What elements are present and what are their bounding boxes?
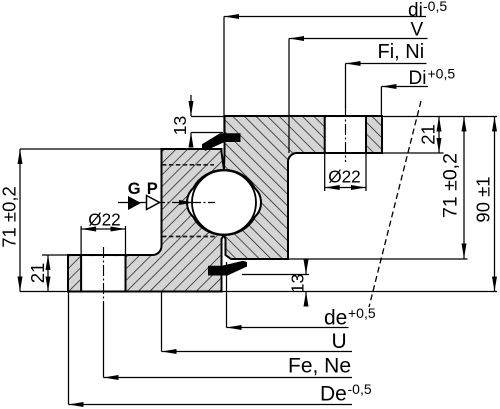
G marker (filled triangle) bbox=[128, 196, 141, 210]
svg-text:Ø22: Ø22 bbox=[328, 167, 361, 187]
90 arrows bbox=[492, 117, 497, 132]
top hole centerline bbox=[345, 106, 347, 162]
de ext vertical bbox=[226, 262, 228, 328]
di arrow bbox=[224, 14, 239, 19]
svg-text:90 ±1: 90 ±1 bbox=[473, 176, 494, 222]
U line bbox=[162, 351, 353, 353]
O22 top arrows bbox=[325, 185, 340, 190]
svg-text:Di: Di bbox=[409, 68, 427, 89]
svg-text:21: 21 bbox=[418, 124, 439, 145]
Di ext vertical bbox=[380, 87, 382, 117]
O22 bottom ext verticals bbox=[80, 226, 82, 255]
G/P axis dash-dot bbox=[118, 202, 215, 204]
bolt hole in top flange bbox=[325, 116, 366, 153]
Fi ext vertical bbox=[345, 64, 347, 109]
svg-text:de: de bbox=[324, 307, 347, 330]
left 71 arrows bbox=[18, 149, 23, 164]
svg-text:V: V bbox=[411, 20, 424, 41]
svg-text:U: U bbox=[332, 330, 347, 353]
svg-text:Ø22: Ø22 bbox=[88, 210, 121, 230]
right 71 dim line bbox=[463, 117, 465, 259]
di line bbox=[224, 16, 426, 18]
P marker (open triangle) bbox=[147, 196, 160, 210]
Di arrow bbox=[381, 84, 396, 89]
inner ring bottom ext bbox=[20, 291, 68, 293]
90 dim line bbox=[494, 117, 496, 292]
ball bbox=[192, 171, 256, 235]
svg-text:+0,5: +0,5 bbox=[428, 66, 456, 82]
left 21 dim line bbox=[47, 255, 49, 292]
de line bbox=[227, 327, 349, 329]
13 top dim segments bbox=[190, 95, 192, 116]
outer ring bottom ext bbox=[288, 258, 468, 260]
flange underside ext bbox=[382, 152, 444, 154]
raceway hidden dashed lines on inner ring bbox=[162, 164, 214, 166]
de arrow bbox=[227, 325, 242, 330]
top surface extensions y=116.5 bbox=[191, 116, 226, 118]
bottom seal (black) bbox=[208, 261, 247, 276]
U arrow bbox=[162, 349, 177, 354]
13 bottom arrows bbox=[304, 260, 309, 275]
svg-text:De: De bbox=[320, 382, 347, 405]
O22 top ext verticals bbox=[324, 153, 326, 191]
svg-text:13: 13 bbox=[170, 116, 190, 135]
V arrow bbox=[289, 36, 304, 41]
13 bottom dim segments bbox=[305, 261, 307, 275]
Fi line bbox=[346, 63, 427, 65]
inner ring top ext (left 71) bbox=[20, 148, 162, 150]
left 71 dim line bbox=[19, 149, 21, 292]
Fi arrow bbox=[346, 61, 361, 66]
svg-text:71 ±0,2: 71 ±0,2 bbox=[440, 153, 462, 218]
svg-text:+0,5: +0,5 bbox=[348, 305, 376, 321]
svg-text:P: P bbox=[147, 180, 158, 198]
U ext vertical bbox=[161, 292, 163, 352]
svg-text:71 ±0,2: 71 ±0,2 bbox=[0, 186, 20, 248]
13 top arrows bbox=[189, 101, 194, 116]
ball contact arrow bbox=[179, 200, 194, 205]
V ext vertical bbox=[288, 39, 290, 154]
De ext vertical bbox=[68, 292, 70, 405]
V line bbox=[289, 38, 428, 40]
seal top ext (13 top) bbox=[191, 132, 223, 134]
Fe line bbox=[104, 377, 353, 379]
left 21 arrows bbox=[46, 255, 51, 270]
gear option dashed line bbox=[369, 101, 421, 307]
right 71 arrows bbox=[462, 117, 467, 132]
De line bbox=[69, 404, 353, 406]
inner flange top ext (left 21) bbox=[42, 254, 68, 256]
right 21 dim line bbox=[438, 117, 440, 154]
bolt hole in bottom flange bbox=[81, 255, 125, 292]
O22 top dim line bbox=[325, 187, 366, 189]
bottom hole centerline bbox=[103, 247, 105, 302]
O22 bottom arrows bbox=[81, 227, 96, 232]
svg-text:Fi, Ni: Fi, Ni bbox=[378, 41, 425, 63]
outer ring (upper right, hatched) bbox=[224, 116, 382, 259]
svg-text:-0,5: -0,5 bbox=[348, 381, 372, 397]
O22 bottom dim line bbox=[81, 228, 125, 230]
Fe arrow bbox=[104, 375, 119, 380]
svg-text:di: di bbox=[408, 0, 423, 21]
svg-text:-0,5: -0,5 bbox=[423, 0, 447, 14]
top seal (black) bbox=[202, 133, 241, 151]
right 21 arrows bbox=[437, 117, 442, 132]
inner ring (lower left, hatched) bbox=[68, 149, 224, 292]
De arrow bbox=[69, 402, 84, 407]
seal bottom ext (13 bottom) bbox=[242, 274, 309, 276]
svg-text:Fe, Ne: Fe, Ne bbox=[288, 354, 351, 377]
Fe ext vertical bbox=[103, 302, 105, 378]
svg-text:21: 21 bbox=[27, 263, 48, 284]
svg-text:13: 13 bbox=[288, 274, 308, 293]
di ext vertical bbox=[223, 17, 225, 133]
Di line bbox=[381, 86, 428, 88]
svg-text:G: G bbox=[128, 180, 141, 198]
